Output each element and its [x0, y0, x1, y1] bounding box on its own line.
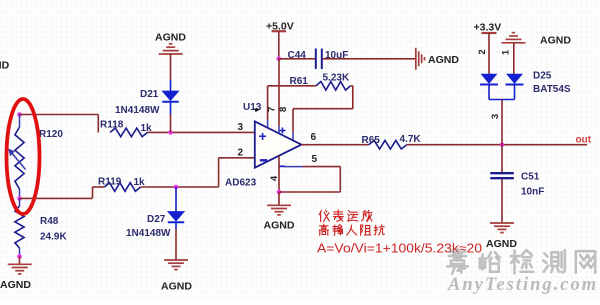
annotation line 1: instrument op-amp [319, 210, 329, 221]
svg-text:R48: R48 [40, 216, 59, 227]
wire D25 pin3 to out node [501, 100, 503, 145]
watermark CJK: JiaYu Testing Net [447, 249, 468, 274]
svg-text:1N4148W: 1N4148W [115, 105, 160, 116]
capacitor C44 10uF [279, 58, 315, 60]
diode D27 1N4148W [175, 187, 177, 199]
svg-text:AGND: AGND [486, 238, 517, 250]
resistor R120 (variable, in red ellipse) [19, 115, 21, 128]
wire node A to R118 [20, 114, 99, 116]
svg-text:AGND: AGND [161, 281, 192, 293]
svg-text:6: 6 [311, 132, 317, 143]
ground AGND under D27 [164, 259, 188, 261]
svg-text:D25: D25 [533, 71, 552, 82]
wire R65 to out [407, 144, 587, 146]
svg-text:1: 1 [500, 49, 511, 55]
wire R61 right to pin 8 [352, 86, 354, 109]
svg-text:R120: R120 [39, 129, 63, 140]
svg-text:C51: C51 [521, 172, 540, 183]
ground AGND under op-amp [278, 192, 280, 205]
wire R61 left to pin 1 [267, 86, 269, 120]
pin 4 wire to ground [278, 156, 280, 192]
svg-text:10nF: 10nF [521, 187, 544, 198]
capacitor C51 10nF [501, 145, 503, 172]
wire +5V to pin 7 [278, 59, 280, 126]
pin 5 REF loop [284, 166, 303, 168]
junction +5V rail [277, 57, 282, 62]
resistor R119 1k [104, 183, 140, 192]
junction pin4/REF/ground [277, 190, 282, 195]
svg-text:+3.3V: +3.3V [474, 22, 502, 34]
svg-text:7: 7 [266, 107, 277, 112]
svg-text:+: + [259, 128, 267, 144]
resistor R61 5.23K (gain) [268, 85, 316, 87]
svg-text:D27: D27 [147, 214, 166, 225]
svg-text:3: 3 [238, 122, 244, 133]
svg-text:AGND: AGND [155, 32, 186, 44]
op-amp U13 AD623 [255, 121, 302, 167]
svg-text:24.9K: 24.9K [40, 232, 67, 243]
resistor R65 4.7K [369, 140, 407, 149]
wire R118 to op-amp pin 3 [148, 131, 255, 133]
node A junction (sensor top) [17, 112, 22, 117]
svg-text:AGND: AGND [540, 35, 571, 47]
svg-text:AGND: AGND [264, 220, 295, 232]
ground AGND under R48 [19, 257, 21, 265]
red highlight ellipse around sensor divider [7, 99, 40, 214]
ground AGND above D25 pin1 (inverted) [502, 42, 526, 44]
svg-text:5.23K: 5.23K [323, 73, 350, 84]
resistor R118 1k [110, 128, 148, 137]
svg-text:U13: U13 [243, 102, 262, 113]
svg-text:5: 5 [312, 154, 318, 165]
svg-text:C44: C44 [288, 50, 307, 61]
svg-text:R118: R118 [100, 120, 124, 131]
wire pin 6 output [301, 144, 368, 146]
svg-text:ND: ND [0, 60, 10, 72]
node junction at D27 [174, 185, 179, 190]
wire node B to R119 [20, 197, 93, 199]
svg-text:1N4148W: 1N4148W [126, 228, 171, 239]
svg-text:BAT54S: BAT54S [533, 84, 571, 95]
annotation line 2: high input impedance [319, 224, 328, 235]
junction at R48 bottom [17, 254, 22, 259]
svg-text:3: 3 [490, 114, 501, 119]
svg-text:8: 8 [278, 107, 289, 112]
svg-text:AGND: AGND [0, 279, 31, 291]
wire C44 to AGND (rotated ground) [323, 58, 416, 60]
R120 adjust arrow [11, 152, 26, 170]
svg-text:D21: D21 [140, 89, 159, 100]
node junction at D21 [168, 130, 173, 135]
svg-text:R61: R61 [290, 76, 309, 87]
node B junction (sensor mid) [17, 196, 22, 201]
wire +3.3V to D25 pin2 [488, 33, 490, 74]
ground AGND under C51 [501, 179, 503, 223]
resistor R48 24.9K [19, 199, 21, 207]
svg-text:2: 2 [238, 148, 244, 159]
svg-text:AD623: AD623 [225, 178, 257, 189]
svg-text:out: out [576, 135, 592, 146]
junction out node [500, 142, 505, 147]
ground AGND right of C44 (rotated) [415, 48, 417, 70]
dual diode D25 BAT54S [481, 74, 496, 83]
wire R119 to op-amp pin 2 [141, 186, 219, 188]
svg-text:2: 2 [477, 49, 488, 54]
svg-text:R119: R119 [98, 177, 122, 188]
svg-text:AGND: AGND [428, 54, 459, 66]
svg-text:R65: R65 [362, 135, 381, 146]
diode D21 1N4148W [170, 80, 172, 91]
svg-text:AnyTesting.com: AnyTesting.com [447, 275, 598, 295]
svg-text:4.7K: 4.7K [400, 134, 422, 145]
